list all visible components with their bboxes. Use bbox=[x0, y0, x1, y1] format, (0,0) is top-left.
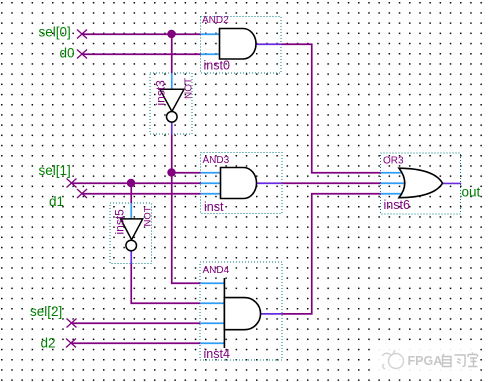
svg-text:inst5: inst5 bbox=[113, 209, 127, 235]
selection box NOT3 bbox=[150, 73, 192, 134]
wire sel[2] to AND4 pin3 bbox=[72, 322, 201, 324]
pin-cross sel[2] bbox=[67, 319, 77, 328]
not-gate U-NOT5 triangle bbox=[121, 219, 143, 240]
wire sel[0] to AND2 pin1 bbox=[82, 33, 201, 35]
watermark glyph xi bbox=[455, 355, 466, 367]
wire sel[0] tap down to NOT3 input bbox=[171, 34, 173, 73]
AND2 input stub pin1 bbox=[201, 33, 220, 35]
wire d0 to AND2 pin2 bbox=[82, 53, 201, 55]
AND4 input stub pin4 bbox=[200, 342, 224, 344]
svg-text:d2: d2 bbox=[41, 336, 56, 351]
AND2 output stub bbox=[256, 43, 281, 45]
OR3 output stub bbox=[443, 182, 462, 184]
watermark glyph zi bbox=[442, 354, 451, 367]
AND4 output stub bbox=[261, 313, 282, 315]
OR3 input stub pin1 bbox=[381, 172, 405, 174]
watermark glyph shi bbox=[468, 353, 478, 367]
wire d2 to AND4 pin4 bbox=[71, 342, 200, 344]
wire NOT5 output down to AND4 pin2 bbox=[131, 264, 200, 304]
pin-cross d2 bbox=[66, 339, 76, 348]
junction node A on sel[0] bbox=[167, 30, 175, 38]
OR3 input stub pin2 bbox=[381, 182, 407, 184]
svg-text:inst3: inst3 bbox=[154, 80, 168, 106]
svg-text:d0: d0 bbox=[60, 46, 75, 61]
svg-text:inst4: inst4 bbox=[204, 347, 230, 361]
NOT3 input stub bbox=[171, 73, 173, 89]
AND3 input stub pin3 bbox=[201, 193, 221, 195]
wire AND2 output to OR3 pin1 bbox=[281, 44, 381, 173]
AND4 input stub pin1 bbox=[200, 282, 224, 284]
svg-text:inst: inst bbox=[204, 200, 224, 214]
or-gate U-OR3 body bbox=[399, 168, 443, 198]
pin-cross d1 bbox=[77, 189, 87, 198]
junction node C on sel[1] bbox=[127, 179, 135, 187]
and-gate U-AND3 body bbox=[221, 168, 257, 199]
svg-text:FPGA: FPGA bbox=[408, 354, 443, 368]
not-gate U-NOT3 bubble bbox=[167, 112, 178, 123]
svg-text:sel[0]: sel[0] bbox=[39, 25, 71, 40]
NOT5 input stub bbox=[130, 203, 132, 219]
AND4 input stub pin2 bbox=[200, 302, 224, 304]
selection box AND4 bbox=[200, 262, 282, 360]
selection box AND2 bbox=[201, 17, 282, 74]
svg-text:d1: d1 bbox=[49, 194, 64, 209]
svg-text:AND4: AND4 bbox=[203, 265, 230, 276]
junction node B to AND3 pin1 bbox=[167, 168, 175, 176]
wire NOT3 output down to AND4 pin1, with tap bbox=[172, 134, 201, 283]
svg-text:NOT: NOT bbox=[143, 206, 154, 226]
svg-text:sel[2]: sel[2] bbox=[30, 304, 62, 319]
and-gate U-AND4 input bar bbox=[223, 278, 225, 348]
wire AND4 output to OR3 pin3 bbox=[281, 194, 381, 314]
AND4 input stub pin3 bbox=[200, 322, 224, 324]
pin-cross sel[0] bbox=[77, 30, 87, 39]
pin-cross d0 bbox=[77, 50, 87, 59]
svg-text:AND3: AND3 bbox=[203, 155, 230, 166]
svg-text:NOT: NOT bbox=[184, 78, 195, 99]
AND2 input stub pin2 bbox=[201, 53, 220, 55]
wire sel[1] tap down to NOT5 input bbox=[130, 183, 132, 203]
AND3 output stub bbox=[257, 182, 283, 184]
svg-text:out: out bbox=[462, 185, 481, 200]
pin-cross sel[1] bbox=[67, 179, 77, 188]
svg-text:AND2: AND2 bbox=[202, 15, 229, 26]
watermark background bbox=[374, 345, 480, 372]
AND3 input stub pin1 bbox=[201, 172, 221, 174]
svg-text:sel[1]: sel[1] bbox=[39, 163, 71, 178]
watermark icon bbox=[382, 350, 404, 369]
svg-text:inst0: inst0 bbox=[204, 59, 230, 73]
selection box OR3 bbox=[381, 153, 461, 214]
not-gate U-NOT5 bubble bbox=[126, 240, 137, 251]
svg-text:OR3: OR3 bbox=[383, 156, 404, 167]
selection box NOT5 bbox=[110, 203, 152, 264]
wire sel[1] to AND3 pin2 bbox=[72, 182, 201, 184]
not-gate U-NOT3 triangle bbox=[160, 89, 184, 111]
svg-text:inst6: inst6 bbox=[384, 198, 410, 212]
and-gate U-AND4 body bbox=[224, 298, 260, 330]
and-gate U-AND2 body bbox=[220, 29, 256, 60]
AND3 input stub pin2 bbox=[201, 182, 221, 184]
NOT5 output stub bbox=[130, 251, 132, 264]
wire d1 to AND3 pin3 bbox=[82, 193, 201, 195]
NOT3 output stub bbox=[171, 122, 173, 134]
wire AND3 output to OR3 pin2 bbox=[282, 182, 381, 184]
selection box AND3 bbox=[201, 153, 283, 214]
wire tap to AND3 pin1 bbox=[172, 172, 201, 174]
OR3 input stub pin3 bbox=[381, 193, 405, 195]
